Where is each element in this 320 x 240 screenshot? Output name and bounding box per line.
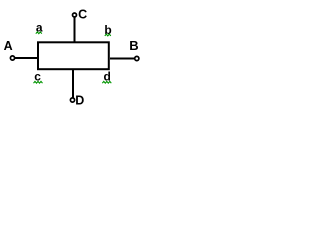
svg-text:C: C <box>78 8 87 22</box>
svg-text:B: B <box>129 38 138 53</box>
svg-text:D: D <box>75 93 84 107</box>
svg-text:A: A <box>4 39 13 53</box>
